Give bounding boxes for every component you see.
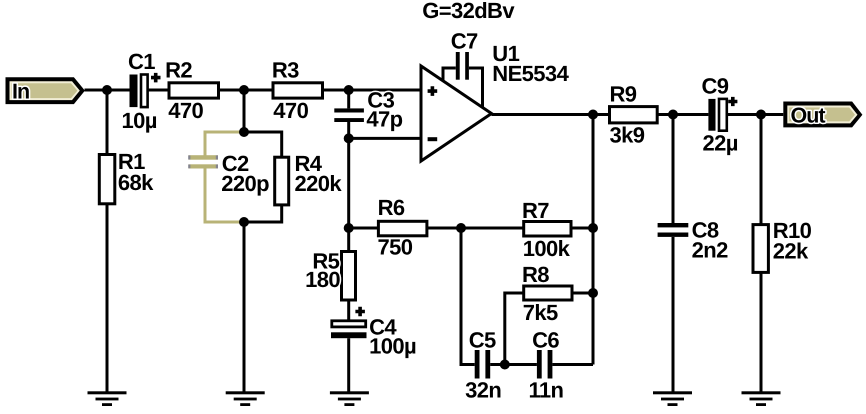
svg-text:47p: 47p bbox=[366, 107, 402, 132]
svg-text:G=32dBv: G=32dBv bbox=[422, 0, 515, 23]
svg-text:In: In bbox=[12, 79, 29, 103]
svg-text:Out: Out bbox=[791, 103, 826, 127]
svg-text:C5: C5 bbox=[469, 327, 496, 352]
svg-text:22k: 22k bbox=[773, 239, 809, 264]
svg-text:220k: 220k bbox=[295, 171, 343, 196]
svg-text:68k: 68k bbox=[118, 170, 154, 195]
svg-text:470: 470 bbox=[168, 98, 203, 123]
svg-text:R3: R3 bbox=[272, 58, 299, 83]
svg-text:180: 180 bbox=[305, 267, 340, 292]
svg-text:R9: R9 bbox=[610, 82, 637, 107]
svg-text:R6: R6 bbox=[378, 195, 405, 220]
svg-text:R2: R2 bbox=[165, 58, 192, 83]
svg-text:C1: C1 bbox=[128, 49, 155, 74]
svg-text:750: 750 bbox=[378, 235, 413, 260]
svg-text:NE5534: NE5534 bbox=[492, 61, 569, 86]
svg-text:2n2: 2n2 bbox=[692, 238, 728, 263]
svg-text:100µ: 100µ bbox=[369, 334, 416, 359]
svg-text:470: 470 bbox=[273, 98, 308, 123]
svg-text:32n: 32n bbox=[465, 378, 501, 403]
svg-text:C6: C6 bbox=[532, 327, 559, 352]
svg-text:10µ: 10µ bbox=[122, 108, 157, 133]
svg-text:220p: 220p bbox=[221, 171, 269, 196]
svg-text:7k5: 7k5 bbox=[523, 300, 558, 325]
svg-text:C9: C9 bbox=[702, 74, 729, 99]
svg-text:11n: 11n bbox=[529, 378, 564, 403]
svg-text:C7: C7 bbox=[451, 29, 478, 54]
svg-text:3k9: 3k9 bbox=[610, 123, 645, 148]
svg-text:22µ: 22µ bbox=[703, 131, 738, 156]
svg-text:R8: R8 bbox=[522, 262, 549, 287]
svg-text:100k: 100k bbox=[523, 236, 571, 261]
svg-text:R7: R7 bbox=[522, 198, 549, 223]
